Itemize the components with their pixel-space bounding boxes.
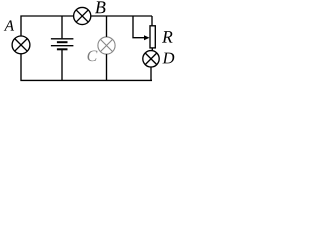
wiper arrowhead: [144, 35, 150, 40]
lamp C (grey): [98, 37, 115, 54]
wire lamp D bottom lead: [150, 67, 152, 80]
label R: [162, 31, 172, 42]
rheostat lead to lamp D: [151, 48, 153, 50]
wire lamp C top lead: [106, 16, 108, 37]
lamp A: [12, 36, 30, 54]
label C: [87, 51, 97, 62]
wiper wire: [133, 16, 145, 38]
battery plate long 1: [51, 38, 74, 40]
label D: [162, 53, 174, 64]
wire bottom horizontal: [21, 54, 152, 81]
battery plate short 1: [57, 41, 68, 43]
label B: [95, 1, 105, 13]
battery bottom lead: [61, 50, 63, 81]
battery plate long 2: [51, 45, 74, 47]
battery plate short 2: [57, 48, 68, 50]
lamp B: [74, 7, 91, 24]
wire top horizontal left segment: [21, 16, 74, 37]
wire top horizontal right segment: [91, 15, 152, 17]
wire right vertical to resistor: [151, 16, 153, 26]
rheostat R box: [150, 26, 155, 48]
label A: [4, 20, 14, 30]
lamp D: [143, 51, 159, 67]
wire lamp C bottom lead: [106, 54, 108, 80]
battery top lead: [61, 16, 63, 38]
